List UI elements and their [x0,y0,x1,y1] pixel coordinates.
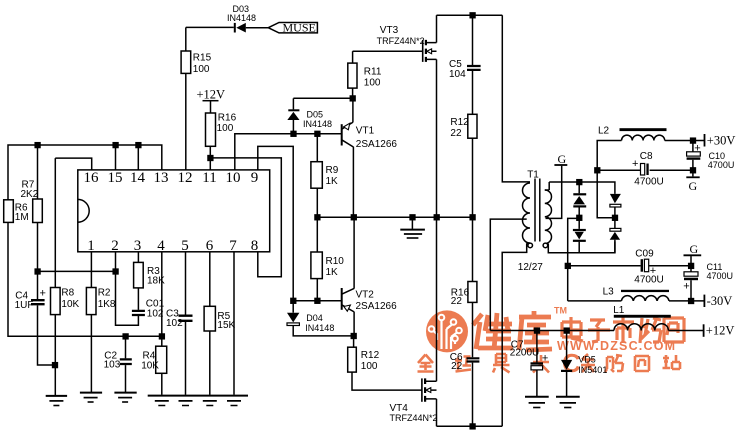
svg-text:R12: R12 [361,350,380,361]
capacitor C6 [450,352,480,427]
resistor R4 pin4 [141,252,167,395]
svg-text:R16: R16 [218,113,237,124]
capacitor C3 pin5 [166,252,193,395]
svg-text:4700U: 4700U [634,274,663,285]
watermark big char wei [473,313,513,350]
transistor VT2 2SA1266 [342,217,397,336]
wire pin10 base net [235,131,342,170]
svg-text:4700U: 4700U [707,271,734,281]
transistor VT1 2SA1266 [342,98,398,217]
capacitor C5 [449,15,481,114]
watermark chars dian zi shi chang wang [562,317,684,343]
svg-text:1K: 1K [326,176,339,187]
svg-text:R8: R8 [61,288,74,299]
svg-text:22: 22 [450,128,462,139]
svg-text:12/27: 12/27 [518,262,543,273]
svg-text:2200U: 2200U [510,348,539,359]
wire R15 to D03 [186,26,234,28]
wire top drain rail [437,13,503,18]
wire +12V rail [490,328,614,333]
wire pin11 to pin8 loop [210,158,281,277]
inductor L2 [598,125,705,143]
wire negative output branch [565,218,579,301]
svg-text:VD5: VD5 [578,355,596,365]
svg-text:VT2: VT2 [356,289,375,300]
capacitor C11 [683,262,733,301]
diode D05 IN4148 [287,98,332,133]
svg-text:IN4148: IN4148 [305,323,334,333]
svg-text:+: + [632,158,638,170]
wire pin9 to D04 [258,146,293,300]
svg-text:12: 12 [178,170,193,186]
node bridge mid junctions [577,215,617,220]
svg-text:15: 15 [108,170,123,186]
mosfet VT4 TRFZ44N*2 [390,217,438,426]
-30V terminal [704,294,732,308]
svg-text:100: 100 [364,78,381,89]
wire positive output to L2 [595,141,622,218]
wire secondary center tap to G [546,166,562,219]
svg-text:1K: 1K [326,267,339,278]
svg-text:VT1: VT1 [356,125,375,136]
svg-text:2: 2 [111,238,119,254]
transformer T1 primary phase dot [528,243,533,248]
svg-text:D05: D05 [307,109,324,119]
svg-text:16: 16 [84,170,100,186]
svg-text:22: 22 [451,296,463,307]
ground under R8 C4 [46,396,67,406]
resistor R2 pin1 [86,252,116,392]
svg-text:TRFZ44N*2: TRFZ44N*2 [377,36,425,46]
svg-text:+12V: +12V [197,87,226,101]
capacitor C8 [597,151,693,188]
transformer T1 core [535,179,540,242]
G terminal above C11 [684,242,702,266]
svg-text:R10: R10 [326,256,345,267]
svg-text:C8: C8 [640,151,653,162]
svg-text:4700U: 4700U [708,160,735,170]
svg-text:102: 102 [166,318,183,329]
inductor L1 [613,305,703,331]
transformer T1 primary winding [502,170,539,427]
diode bridge top-left [573,182,586,229]
svg-text:R11: R11 [364,66,382,77]
svg-text:104: 104 [449,69,466,80]
svg-text:11: 11 [202,170,216,186]
svg-text:4700U: 4700U [634,176,663,187]
wire pin7 to ground [233,252,235,395]
wire drain rail to primary top [502,15,530,182]
svg-text:6: 6 [206,238,214,254]
IC U1 bottom pin numbers 1-8 [87,238,258,254]
capacitor C4 [15,271,58,367]
wire top-left rail pins 13 14 15 to R6 R7 [8,143,162,200]
svg-text:+: + [683,280,689,292]
svg-text:R9: R9 [326,165,339,176]
shared ground bar pins 4-7 [148,396,248,406]
svg-text:L2: L2 [598,125,610,136]
resistor R12 gate VT4 [348,336,422,390]
resistor R6 [4,200,29,223]
svg-text:7: 7 [229,238,237,254]
svg-text:15K: 15K [217,320,235,331]
G terminal secondary [554,152,567,166]
svg-text:+: + [40,288,46,300]
resistor R15 pin12 [181,27,211,170]
resistor R10 [311,217,344,301]
+12V terminal right [704,324,735,338]
transformer T1 secondary winding [518,182,615,273]
wire lower-left rail R6 to C2 R4 [8,222,164,338]
resistor R16 22 [451,217,477,357]
MUSE flag [268,21,317,35]
svg-text:100: 100 [361,361,378,372]
svg-text:2K2: 2K2 [21,189,39,200]
wire bottom source rail [437,424,503,429]
capacitor C10 [687,141,735,177]
wire feedback node pin2 [38,252,119,274]
ground under C7 [525,397,549,408]
IC U1 top pin numbers 16-9 [84,170,259,186]
svg-text:1K8: 1K8 [98,299,116,310]
svg-text:D04: D04 [306,313,323,323]
diode D03 IN4148 [227,4,268,33]
resistor R3 pin3 [134,252,166,288]
diode bridge bottom-right [610,228,621,252]
svg-text:22: 22 [451,361,463,372]
ground at center row [400,217,425,238]
capacitor C7 [510,331,549,397]
watermark big char ku [519,311,552,350]
capacitor C2 [104,336,132,392]
svg-text:T1: T1 [527,170,539,181]
wire primary center tap to +12V rail [490,219,526,330]
svg-text:TRFZ44N*2: TRFZ44N*2 [390,413,438,423]
svg-text:1M: 1M [15,212,29,223]
svg-text:+12V: +12V [706,324,735,338]
ground under C2 [114,393,136,402]
svg-text:R12: R12 [450,117,469,128]
svg-text:IN4148: IN4148 [227,13,256,23]
wire pin16 rail to R8 [55,158,91,170]
svg-text:TM: TM [554,306,567,316]
svg-text:13: 13 [154,170,169,186]
capacitor C01 [116,271,165,325]
svg-text:G: G [689,179,698,193]
svg-text:10K: 10K [141,360,159,371]
wire bridge top ac [549,180,615,194]
G terminal under C10 [686,177,699,193]
svg-text:2SA1266: 2SA1266 [356,139,398,150]
svg-text:+: + [694,142,700,154]
resistor R12 snubber 22 [450,114,477,217]
svg-text:100: 100 [217,123,234,134]
svg-text:10: 10 [226,170,241,186]
wire VT2 base net [291,298,342,303]
diode bridge top-right [610,194,621,229]
svg-text:14: 14 [130,170,146,186]
svg-text:IN4148: IN4148 [303,119,332,129]
svg-text:10K: 10K [61,299,79,310]
svg-text:4: 4 [157,238,165,254]
svg-text:G: G [690,242,699,256]
svg-text:IN5401: IN5401 [578,365,607,375]
+12V terminal top [197,87,226,113]
svg-text:2SA1266: 2SA1266 [356,301,398,312]
watermark slogan chars quan qiu zui da [418,354,550,373]
svg-text:3: 3 [134,238,142,254]
svg-text:1: 1 [87,238,95,254]
diode VD5 IN5401 [561,331,607,397]
IC U1 body [78,170,270,252]
svg-text:100: 100 [193,64,210,75]
svg-text:8: 8 [251,238,259,254]
watermark slogan chars cai gou wang zhan [581,354,680,372]
node row 217 with center ground [315,215,475,220]
wire D05 to R11 emitter node [293,96,355,101]
svg-text:L1: L1 [613,305,625,316]
svg-text:VT3: VT3 [380,25,399,36]
watermark logo disc [426,310,468,352]
resistor R5 pin6 [204,252,235,395]
resistor R16 pin11 [206,113,237,170]
inductor L3 [568,287,705,304]
svg-text:MUSE: MUSE [283,21,316,35]
svg-text:C09: C09 [635,248,654,259]
+30V terminal [705,133,736,147]
ground under R2 [80,393,102,402]
svg-text:G: G [558,152,567,166]
resistor R7 [21,145,43,274]
svg-text:+: + [542,352,548,364]
resistor R8 [51,158,80,395]
svg-text:1UF: 1UF [15,300,34,311]
transformer T1 secondary phase dot [543,243,548,248]
mosfet VT3 TRFZ44N*2 [353,15,437,217]
svg-text:L3: L3 [603,287,615,298]
diode bridge bottom-left [573,230,586,253]
capacitor C09 [568,248,694,285]
resistor R11 [348,51,382,98]
svg-text:+30V: +30V [707,133,736,147]
svg-text:5: 5 [181,238,189,254]
svg-text:-30V: -30V [707,294,733,308]
resistor R9 [311,134,339,218]
ground under VD5 [556,397,580,408]
diode D04 IN4148 [287,301,356,339]
svg-text:R15: R15 [193,53,212,64]
svg-text:103: 103 [104,360,121,371]
svg-text:R2: R2 [98,288,111,299]
svg-text:9: 9 [251,170,259,186]
